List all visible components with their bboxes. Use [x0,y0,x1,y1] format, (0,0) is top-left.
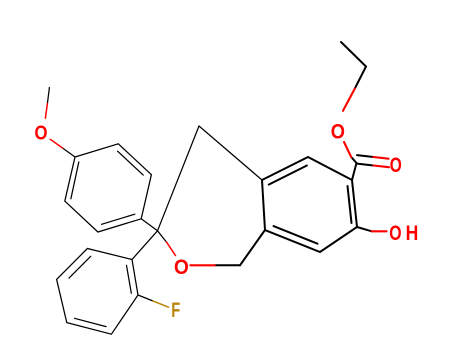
ring A inner double bond V4-V5 [102,214,135,224]
bond ring C BR to OH black half [357,227,372,231]
svg-text:O: O [35,123,48,145]
O1-ring bond red half [50,139,62,148]
ring B inner double bond W4-W5 [75,318,107,326]
svg-text:O: O [174,256,189,279]
ring C inner double bond B-BL [274,226,318,244]
svg-text:O: O [390,154,402,177]
svg-text:O: O [331,120,345,143]
ring C inner double bond TR-BR [348,186,352,223]
OH bond red half [372,230,387,232]
svg-text:F: F [171,299,180,322]
ring B inner double bond W6-W1 [127,265,132,293]
O2-R1 bond red half [190,264,214,266]
methyl bond red half near O1 [45,104,47,119]
ring A inner double bond V6-V1 [71,162,79,199]
bond C1 to C2 (ethyl) [341,42,366,67]
ester C=O double bond black halves [357,155,374,157]
ring B inner double bond W2-W3 [69,256,91,278]
svg-text:H: H [406,222,419,245]
bond ring A V4 to quaternary C [141,219,157,231]
benzene ring C [262,157,357,252]
bond R1 to ring C BL [240,230,265,265]
O3-C1 bond red half [343,89,355,111]
benzene ring A (4-methoxyphenyl) [65,144,152,232]
bond O3 to C1 black half [355,67,366,89]
ring A inner double bond V2-V3 [118,151,144,175]
bond Q to O2 black half [158,231,167,242]
bond O1 to ring A V1 black half [63,148,75,157]
bond Q to ring B W1 [132,231,158,260]
long bond Q to apex [158,126,200,231]
svg-text:O: O [389,222,401,245]
bond W6 to F black half [138,295,153,301]
bond apex to ring C TL [199,126,262,180]
ring C inner double bond TL-T [269,166,307,185]
Q-O2 bond red half [167,242,176,255]
carbonyl C-O3 bond red half [344,142,351,157]
bond carbonyl C to O3 black half [351,157,356,163]
methyl bond CH3-O1 black half [47,88,49,104]
bond W6 to F olive half [153,301,169,307]
benzene ring B (2-fluorophenyl) [57,249,138,335]
bond O2 to R1 black half [215,264,240,266]
C=O red halves [374,157,389,159]
bond ring C TR to carbonyl C [352,163,357,180]
